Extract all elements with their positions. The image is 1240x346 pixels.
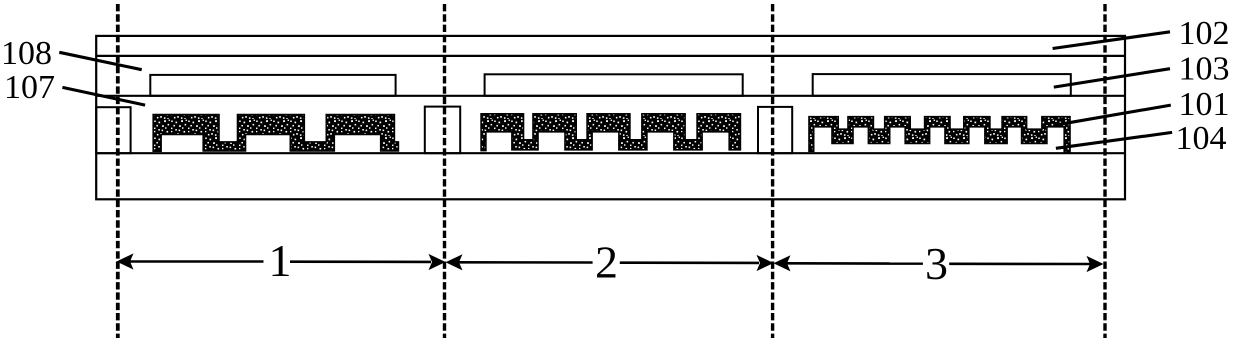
layer line under 102	[96, 55, 1125, 57]
outer substrate box 104	[96, 36, 1125, 199]
baseline over 104	[96, 152, 1125, 154]
electrode plate rect region 3	[813, 74, 1071, 96]
svg-text:104: 104	[1176, 120, 1227, 157]
svg-text:102: 102	[1179, 15, 1230, 52]
svg-text:3: 3	[925, 238, 948, 289]
dashed section line a	[116, 4, 120, 338]
svg-text:108: 108	[1, 35, 52, 72]
svg-text:2: 2	[595, 236, 618, 287]
svg-text:1: 1	[269, 235, 292, 286]
leader 108	[59, 52, 141, 69]
electrode plate rect region 2	[485, 74, 743, 96]
spacer between region 1 and 2	[425, 107, 460, 154]
svg-text:103: 103	[1179, 51, 1230, 88]
leader 102	[1053, 32, 1170, 49]
spacer between region 2 and 3	[758, 107, 792, 153]
dashed section line b	[443, 4, 446, 338]
svg-text:107: 107	[4, 69, 55, 106]
leader 107	[62, 87, 145, 105]
layer line under 103 rectangles	[96, 95, 1125, 97]
comb electrode 101 region 1 (3 wide teeth)	[153, 115, 398, 152]
dashed section line c	[771, 4, 774, 338]
comb electrode 101 region 3 (7 narrow teeth)	[809, 117, 1070, 153]
leader 101	[1057, 105, 1171, 125]
svg-text:101: 101	[1179, 86, 1230, 123]
dashed section line d	[1103, 4, 1106, 338]
dimension arrow region 1	[130, 260, 264, 263]
spacer left wall	[96, 107, 130, 153]
dimension arrow region 2	[458, 261, 593, 264]
comb electrode 101 region 2 (5 teeth)	[481, 114, 740, 151]
electrode plate rect region 1	[150, 75, 395, 96]
leader 104	[1056, 132, 1172, 148]
leader 103	[1054, 69, 1170, 87]
dimension arrow region 3	[786, 262, 923, 265]
